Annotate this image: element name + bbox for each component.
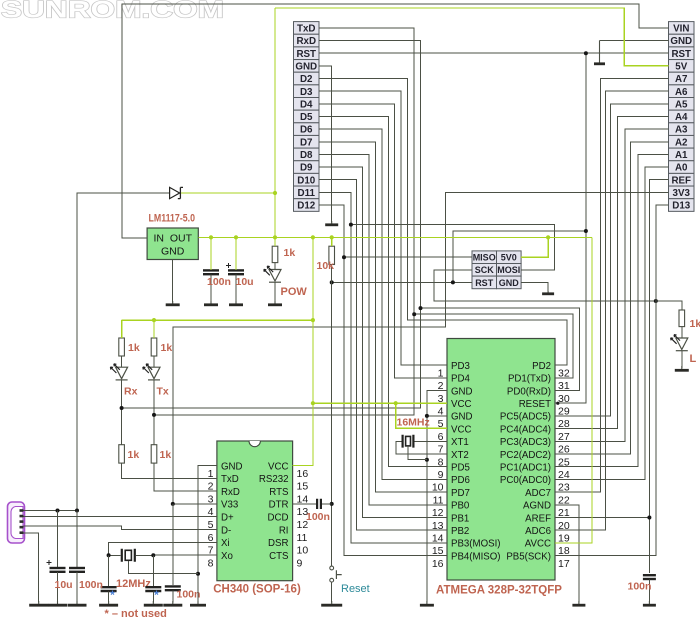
wire ISP RST row	[332, 281, 472, 283]
wire MOSI net: ISP MOSI to D11 riser	[351, 225, 555, 270]
resistor R7 1k LED L	[679, 310, 685, 327]
svg-text:PB2: PB2	[451, 526, 469, 537]
junction crystal left load cap	[107, 553, 111, 557]
capacitor C3 100n on 5V	[203, 269, 219, 271]
svg-text:9: 9	[297, 557, 303, 569]
svg-text:DCD: DCD	[268, 513, 289, 524]
capacitor C7 100n DTR-reset (vertical plates)	[317, 499, 321, 509]
svg-text:16: 16	[297, 468, 309, 480]
wire D10 net to ATMEGA pin 14	[319, 180, 447, 531]
right header pin box VIN	[669, 22, 695, 35]
crystal Q1 12MHz	[122, 549, 135, 562]
wire D9 net to ATMEGA pin 13	[319, 167, 447, 517]
svg-text:PB4(MISO): PB4(MISO)	[451, 551, 501, 562]
wire D2 net to ATMEGA PD2 pin 32	[319, 79, 567, 366]
svg-text:MOSI: MOSI	[497, 265, 520, 275]
wire 12MHz case to CH340 gnd riser	[128, 561, 198, 574]
svg-text:DSR: DSR	[268, 538, 288, 549]
svg-text:PB5(SCK): PB5(SCK)	[506, 551, 551, 562]
svg-text:PB3(MOSI): PB3(MOSI)	[451, 539, 501, 550]
svg-text:100n: 100n	[207, 276, 231, 288]
wire RESET riser: RST row to ATMEGA RESET pin 29	[555, 53, 586, 403]
wire Tx led to junction	[153, 356, 155, 367]
svg-text:D3: D3	[300, 87, 313, 98]
junction crystal right load cap	[151, 553, 155, 557]
wire 5V lower riser green to CH340 VCC pin 16	[293, 237, 313, 465]
svg-text:10u: 10u	[55, 579, 73, 591]
svg-text:VCC: VCC	[268, 461, 288, 472]
wire left load cap lead	[108, 555, 110, 586]
wire D8 net to ATMEGA pin 12	[319, 154, 447, 504]
wire D12 net to ATMEGA pin 16	[319, 205, 447, 556]
svg-text:Reset: Reset	[341, 583, 370, 595]
pin dot RESET pin29	[556, 402, 559, 405]
resistor R3 1k Rx top	[119, 338, 125, 356]
svg-text:D13: D13	[672, 201, 691, 212]
wire USB D- to CH340 pin6 with jog	[24, 526, 217, 530]
svg-text:TxD: TxD	[297, 24, 316, 35]
svg-text:1k: 1k	[284, 247, 296, 259]
svg-text:RxD: RxD	[296, 36, 316, 47]
svg-text:D10: D10	[297, 175, 316, 186]
wire series resistor to CH340 TxD pin2	[122, 463, 217, 478]
ground left header GND	[331, 221, 333, 225]
ground 100n 5V	[210, 301, 212, 305]
wire 5V led feed green	[122, 319, 313, 321]
wire TxD net: left header TxD riser to Tx chain	[154, 28, 414, 415]
svg-text:REF: REF	[671, 175, 691, 186]
capacitor C5 * load cap right	[145, 586, 161, 588]
svg-text:A7: A7	[675, 74, 688, 85]
pushbutton S1 Reset	[330, 566, 342, 582]
LED Tx	[148, 367, 160, 379]
wire Rx led to junction	[121, 356, 123, 367]
svg-text:D6: D6	[300, 125, 313, 136]
right header pin box A5	[669, 98, 695, 111]
wire D5 net to ATMEGA pin 9	[319, 116, 447, 466]
wire USB GND shell to ground	[24, 533, 39, 603]
wire reset button to ground	[331, 582, 333, 602]
left header pin box D3	[294, 85, 320, 98]
wire LM1117 GND pin to ground	[172, 260, 174, 303]
ground ATMEGA GND	[426, 601, 428, 605]
svg-text:CH340 (SOP-16): CH340 (SOP-16)	[213, 584, 301, 596]
junction GND crystal case	[425, 458, 429, 462]
svg-text:Tx: Tx	[157, 385, 169, 397]
svg-text:RxD: RxD	[221, 487, 240, 498]
wire USB VBUS to caps and diode riser	[24, 193, 170, 511]
svg-text:100n: 100n	[306, 511, 330, 523]
wire 5V POW feed green	[274, 237, 276, 246]
svg-text:ATMEGA 328P-32TQFP: ATMEGA 328P-32TQFP	[436, 585, 562, 597]
right header pin box A7	[669, 72, 695, 85]
wire D6 net to ATMEGA pin 10	[319, 129, 447, 479]
svg-text:D4: D4	[300, 99, 313, 110]
wire RxD net: left header RxD riser to Rx chain	[122, 41, 421, 408]
junction TxD/PD1	[412, 312, 416, 316]
junction V33/100n	[171, 502, 175, 506]
svg-text:AVCC: AVCC	[525, 539, 551, 550]
ground 10u	[57, 601, 59, 605]
wire A2 net to ATMEGA pin 25	[555, 142, 669, 454]
wire V33 cap to ground	[172, 591, 174, 603]
svg-text:A6: A6	[675, 87, 688, 98]
svg-text:10u: 10u	[236, 276, 254, 288]
wire TxD branch to ATMEGA PD1 pin 31	[414, 314, 573, 378]
svg-text:GND: GND	[451, 412, 473, 423]
wire AREF cap to ground	[648, 579, 650, 602]
wire V33 100n cap leads	[172, 504, 174, 585]
svg-text:TxD: TxD	[221, 474, 239, 485]
wire 5V ATMEGA VCC green pins 4 and 6	[313, 402, 447, 404]
wire Xi pin7 link	[109, 542, 217, 555]
svg-text:GND: GND	[499, 278, 520, 288]
wire 5V 10k feed green	[331, 237, 333, 246]
resistor R1 1k POW	[272, 246, 278, 262]
capacitor C4 * load cap left	[101, 586, 117, 588]
svg-text:CTS: CTS	[269, 551, 289, 562]
resistor R2 10k reset pullup	[329, 246, 335, 264]
right header pin box A2	[669, 135, 695, 148]
svg-text:RS232: RS232	[259, 474, 289, 485]
svg-text:MISO: MISO	[473, 253, 496, 263]
svg-text:PB0: PB0	[451, 501, 470, 512]
junction green Tx feed	[152, 318, 156, 322]
svg-text:1k: 1k	[128, 342, 140, 354]
svg-text:PD0(RxD): PD0(RxD)	[507, 386, 551, 397]
capacitor C3b 10u polarized on 5V	[228, 269, 244, 271]
wire 5V rail caps leads 100n	[210, 267, 212, 269]
junction VBUS 100n	[75, 509, 79, 513]
svg-text:1k: 1k	[128, 449, 140, 461]
svg-text:GND: GND	[161, 245, 185, 257]
svg-text:VCC: VCC	[451, 399, 471, 410]
wire CH340 GND pin1 to ground	[198, 466, 217, 603]
left header pin box D6	[294, 123, 320, 136]
wire led L to ground	[681, 327, 683, 338]
ground load cap right	[152, 601, 154, 605]
svg-text:PD2: PD2	[532, 361, 551, 372]
svg-text:GND: GND	[295, 61, 317, 72]
wire MISO net: D12 riser to ISP MISO	[344, 256, 472, 258]
svg-text:16MHz: 16MHz	[397, 417, 430, 429]
ground AREF cap	[648, 601, 650, 605]
svg-text:PD5: PD5	[451, 463, 470, 474]
ISP programming header 2x3 body	[472, 251, 521, 289]
wire RxD branch to ATMEGA PD0 pin 30	[421, 308, 580, 390]
junction green ISP 5V0	[546, 235, 550, 239]
resistor R4 1k Tx top	[151, 338, 157, 356]
ground USB shell	[38, 601, 40, 605]
svg-text:IN: IN	[154, 232, 165, 244]
left header pin box D10	[294, 173, 320, 186]
wire 100n input cap lead	[76, 511, 78, 567]
wire 5V diode output green	[181, 192, 275, 194]
junction ISP RST	[451, 280, 455, 284]
svg-text:1k: 1k	[160, 449, 172, 461]
svg-text:PC5(ADC5): PC5(ADC5)	[500, 412, 551, 423]
svg-text:RST: RST	[475, 278, 494, 288]
junction RESET/100n-DTR	[330, 502, 334, 506]
junction green ATMEGA VCC	[311, 401, 315, 405]
right header pin box GND	[669, 34, 695, 47]
wire D4 net to ATMEGA pin 2	[319, 104, 447, 378]
right header pin box A3	[669, 123, 695, 136]
crystal Q2 16MHz	[403, 435, 414, 448]
wire A1 net to ATMEGA pin 24	[555, 154, 669, 466]
svg-text:1k: 1k	[690, 318, 700, 330]
svg-text:GND: GND	[451, 386, 473, 397]
LED L	[676, 338, 688, 350]
ground LM1117	[172, 301, 174, 305]
capacitor C1 10u polarized	[50, 567, 66, 569]
right header pin box A0	[669, 161, 695, 174]
left header pin box D2	[294, 72, 320, 85]
svg-text:A2: A2	[675, 137, 688, 148]
wire A7 net to ATMEGA pin 22	[555, 79, 669, 493]
svg-text:RTS: RTS	[269, 487, 289, 498]
right header pin box D13	[669, 199, 695, 212]
svg-text:A4: A4	[675, 112, 688, 123]
svg-text:D8: D8	[300, 150, 313, 161]
junction VBUS 10u	[56, 509, 60, 513]
ground ISP GND	[547, 291, 549, 294]
svg-text:VCC: VCC	[451, 424, 471, 435]
svg-text:A0: A0	[675, 163, 688, 174]
junction green main riser rail	[311, 235, 315, 239]
svg-text:XT2: XT2	[451, 450, 469, 461]
junction green 100n	[209, 235, 213, 239]
svg-text:10k: 10k	[317, 260, 335, 272]
wire right load cap lead	[152, 555, 154, 586]
svg-text:PC2(ADC2): PC2(ADC2)	[500, 450, 551, 461]
ground POW led	[274, 301, 276, 305]
ground 100n input	[76, 601, 78, 605]
svg-text:PD7: PD7	[451, 488, 470, 499]
junction AREF/REF riser	[647, 516, 651, 520]
wire POW led to ground	[274, 263, 276, 270]
left header pin box D11	[294, 186, 320, 199]
LED POW	[269, 270, 281, 282]
svg-text:ADC6: ADC6	[525, 526, 551, 537]
wire XT1 pin7 to crystal	[415, 440, 447, 442]
junction green POW	[273, 235, 277, 239]
svg-text:* – not used: * – not used	[105, 608, 167, 620]
wire 5V ISP 5V0 green link	[521, 237, 548, 257]
svg-text:5V: 5V	[675, 61, 687, 72]
junction green VCC pin6 branch	[394, 401, 398, 405]
junction green 10u	[234, 235, 238, 239]
junction Rx/RxD link	[120, 406, 124, 410]
svg-text:1k: 1k	[161, 342, 173, 354]
wire D3 net to ATMEGA pin 1	[319, 91, 447, 365]
junction MISO/D12	[342, 255, 346, 259]
wire ISP RST link	[453, 231, 586, 282]
wire SCK net: ISP SCK down and right to LED L resistor	[434, 270, 682, 310]
wire RESET main vertical 10k to reset button	[331, 265, 333, 566]
wire 12MHz crystal row to Xo pin8	[109, 554, 121, 556]
wire VIN net: right header VIN to top rail to LM1117 IN	[122, 4, 669, 238]
svg-text:POW: POW	[281, 286, 308, 298]
svg-text:A3: A3	[675, 125, 688, 136]
svg-text:100n: 100n	[628, 581, 652, 593]
svg-text:*: *	[110, 588, 115, 602]
svg-text:D12: D12	[297, 201, 316, 212]
svg-text:*: *	[154, 588, 159, 602]
wire 5V upper riser green diode to rail	[274, 8, 276, 238]
junction Tx/TxD link	[152, 413, 156, 417]
wire A5 net to ATMEGA pin 28	[555, 104, 669, 416]
voltage regulator U1 LM1117-5.0 body	[147, 228, 198, 260]
svg-text:16: 16	[432, 558, 444, 570]
pin numbers ATMEGA	[432, 367, 570, 570]
svg-text:RST: RST	[296, 49, 316, 60]
IC U2 CH340 body	[217, 441, 293, 581]
wire 5V rail green from LM1117 OUT	[198, 236, 592, 238]
wire ATMEGA GND pins 3,5 vertical to ground	[427, 391, 447, 603]
left header pin box D4	[294, 98, 320, 111]
capacitor C2 100n input	[69, 567, 85, 569]
svg-text:RI: RI	[279, 525, 289, 536]
ground reset button	[331, 601, 333, 605]
right header pin box 5V	[669, 60, 695, 73]
left header pin box D5	[294, 110, 320, 123]
svg-text:A1: A1	[675, 150, 688, 161]
svg-text:OUT: OUT	[170, 232, 193, 244]
left header pin box TxD	[294, 22, 320, 35]
svg-text:AGND: AGND	[523, 501, 551, 512]
junction green led feed	[311, 318, 315, 322]
svg-text:XT1: XT1	[451, 437, 469, 448]
capacitor C9 100n on AREF	[643, 574, 656, 576]
svg-text:DTR: DTR	[269, 500, 289, 511]
svg-text:D11: D11	[298, 188, 316, 199]
junction green diode	[273, 191, 277, 195]
svg-text:PC4(ADC4): PC4(ADC4)	[500, 424, 551, 435]
wire D7 net to ATMEGA pin 11	[319, 142, 447, 492]
svg-text:D+: D+	[221, 513, 234, 524]
svg-text:PC3(ADC3): PC3(ADC3)	[500, 437, 551, 448]
wire series resistor to CH340 RxD pin3	[154, 463, 217, 491]
wire A0 net to ATMEGA pin 23	[555, 167, 669, 479]
resistor R5 1k series TxD	[119, 445, 125, 463]
right header pin box A1	[669, 148, 695, 161]
junction CH340 gnd/12MHz case	[196, 572, 200, 576]
wire DTR to 100n cap	[293, 503, 317, 505]
LED Rx	[116, 367, 128, 379]
wire USB D+ to CH340 pin5	[24, 516, 217, 518]
svg-text:V33: V33	[221, 500, 238, 511]
USB mini-B connector X1	[8, 502, 25, 543]
junction GND pin5	[425, 414, 429, 418]
wire A4 net to ATMEGA pin 27	[555, 116, 669, 428]
svg-text:ADC7: ADC7	[525, 488, 551, 499]
wire RST row: left header RST to right header RST	[319, 52, 669, 54]
svg-text:15: 15	[297, 481, 309, 493]
svg-text:11: 11	[297, 532, 308, 544]
right header pin box 3V3	[669, 186, 695, 199]
wire right header GND to ground	[600, 40, 669, 42]
svg-text:17: 17	[558, 558, 570, 570]
wire 3V3 net: right header 3V3 to CH340 V33	[173, 192, 669, 504]
svg-text:Xi: Xi	[221, 538, 230, 549]
svg-text:D7: D7	[300, 137, 313, 148]
ground load cap left	[108, 601, 110, 605]
left header pin box D9	[294, 161, 320, 174]
svg-text:GND: GND	[221, 461, 243, 472]
right header pin box REF	[669, 173, 695, 186]
IC U3 ATMEGA328P body	[447, 339, 555, 581]
svg-text:PD4: PD4	[451, 374, 470, 385]
left header pin box D12	[294, 199, 320, 212]
svg-text:Rx: Rx	[124, 385, 138, 397]
svg-text:PD3: PD3	[451, 361, 470, 372]
wire crystal left lead to XT2 pin8	[396, 441, 447, 454]
svg-text:L: L	[690, 353, 697, 365]
svg-text:A5: A5	[675, 99, 688, 110]
svg-text:D5: D5	[300, 112, 313, 123]
svg-text:Xo: Xo	[221, 551, 233, 562]
ground LED L	[681, 366, 683, 370]
left header pin box RST	[294, 47, 320, 60]
svg-text:100n: 100n	[79, 579, 103, 591]
wire 5V top rail green to right header 5V	[275, 8, 669, 66]
junction RxD/PD0	[419, 306, 423, 310]
junction RESET riser/ISP RST	[584, 229, 588, 233]
svg-text:10: 10	[297, 545, 309, 557]
wire 5V cap feeds green	[210, 237, 212, 270]
junction green 10k	[330, 235, 334, 239]
ground AGND	[578, 601, 580, 605]
wire 10u input cap lead	[57, 511, 59, 567]
right header pin box A6	[669, 85, 695, 98]
right header pin box A4	[669, 110, 695, 123]
ground right header GND	[599, 41, 601, 64]
svg-text:RST: RST	[671, 49, 691, 60]
resistor R6 1k series RxD	[151, 445, 157, 463]
wire A6 net to ATMEGA pin 19	[555, 91, 669, 530]
svg-text:PC1(ADC1): PC1(ADC1)	[500, 463, 551, 474]
wire ISP GND to ground	[521, 282, 548, 291]
svg-text:RESET: RESET	[519, 399, 551, 410]
junction RST row/RESET riser	[584, 51, 588, 55]
svg-text:5V0: 5V0	[501, 253, 517, 263]
junction RESET main/ISP RST row	[330, 280, 334, 284]
svg-text:100n: 100n	[177, 589, 201, 601]
svg-text:GND: GND	[670, 36, 692, 47]
left header pin box D8	[294, 148, 320, 161]
capacitor C6 100n on V33	[165, 585, 181, 587]
wire A3 net to ATMEGA pin 26	[555, 129, 669, 441]
svg-text:PD1(TxD): PD1(TxD)	[508, 374, 551, 385]
left header pin box GND	[294, 60, 320, 73]
wire REF net: right header REF to AREF pin 20	[649, 180, 668, 574]
right header pin box RST	[669, 47, 695, 60]
pin numbers CH340	[208, 468, 309, 570]
svg-text:D2: D2	[300, 74, 313, 85]
ground CH340 GND	[197, 601, 199, 605]
wire 5V AVCC riser green to pin 18	[555, 237, 592, 543]
wire crystal case to ground net	[408, 446, 427, 460]
svg-text:PB1: PB1	[451, 513, 469, 524]
wire D11 net to ATMEGA pin 15	[319, 192, 447, 543]
svg-text:PC0(ADC0): PC0(ADC0)	[500, 475, 551, 486]
svg-text:SCK: SCK	[475, 265, 495, 275]
ground V33 cap	[172, 601, 174, 605]
left header pin box D7	[294, 135, 320, 148]
svg-text:D9: D9	[300, 163, 313, 174]
svg-text:3V3: 3V3	[673, 188, 691, 199]
